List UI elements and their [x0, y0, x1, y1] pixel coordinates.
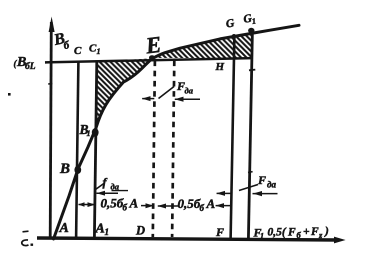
svg-text:): )	[324, 226, 329, 238]
point G1	[248, 28, 254, 34]
svg-text:1: 1	[105, 227, 110, 237]
arrow from dashed line 2 leftward	[158, 205, 179, 207]
hatched area right (between rising curve, level line, G1 vertical)	[153, 33, 253, 58]
svg-text:A: A	[59, 221, 69, 236]
svg-text:1: 1	[260, 232, 264, 241]
svg-text:A: A	[95, 222, 105, 237]
Fда top: right arrow from dashed line 2	[175, 98, 200, 100]
svg-text:А: А	[129, 196, 139, 211]
svg-text:f: f	[103, 175, 108, 189]
hatched area left (between C1 vertical, BбL level line and curve)	[96, 58, 153, 128]
svg-text:F: F	[257, 173, 266, 187]
svg-text:0,5б: 0,5б	[178, 196, 201, 211]
svg-text:да: да	[185, 86, 194, 96]
vertical below C1 (through B1)	[94, 62, 96, 238]
svg-text:1: 1	[251, 16, 257, 26]
arrow into G vertical leftward	[216, 205, 233, 207]
point B	[74, 166, 81, 174]
svg-text:E: E	[143, 32, 162, 59]
svg-text:бL: бL	[25, 61, 36, 72]
BбL level line	[45, 58, 252, 62]
svg-text:+: +	[303, 226, 310, 238]
point E junction	[149, 55, 155, 60]
Fда bottom: left arrow at G vertical	[217, 192, 233, 194]
y-axis arrowhead	[49, 17, 55, 33]
point B1	[92, 128, 99, 137]
svg-text:H: H	[215, 61, 225, 73]
dimension arrow between C and C1 verticals	[79, 204, 96, 206]
magnetization curve	[54, 25, 300, 239]
vertical below C (through B)	[76, 62, 78, 238]
Fда top: left arrow at dashed line D	[142, 98, 154, 100]
svg-text:F: F	[215, 225, 224, 239]
y-axis tick at BбL level	[45, 61, 51, 63]
label G1	[243, 12, 257, 27]
x-axis	[37, 238, 338, 240]
tick on G1 vertical lower	[248, 171, 253, 174]
svg-text:б: б	[200, 203, 205, 213]
svg-text:А: А	[206, 196, 216, 211]
svg-text:1: 1	[97, 47, 101, 56]
vertical below G1	[248, 31, 252, 239]
svg-text:б: б	[62, 39, 70, 52]
vertical below G	[231, 36, 235, 239]
point G	[232, 34, 236, 38]
f да arrow into C1 vertical	[97, 192, 119, 194]
y-axis small tick	[48, 83, 52, 85]
Fда bottom: right arrow at G1 vertical	[253, 193, 278, 195]
arrow into dashed line D	[141, 205, 154, 207]
Fда bottom label with leader	[239, 185, 258, 191]
label G	[225, 17, 236, 30]
svg-text:б: б	[123, 203, 128, 213]
svg-text:D: D	[135, 224, 145, 238]
svg-text:B: B	[59, 161, 70, 177]
x-axis arrowhead	[334, 237, 346, 244]
svg-text:F: F	[310, 226, 319, 238]
Fда top label with leader	[159, 87, 175, 99]
svg-text:G: G	[225, 17, 236, 30]
svg-text:z: z	[318, 230, 323, 240]
svg-text:да: да	[267, 180, 276, 190]
svg-text:1: 1	[87, 129, 91, 138]
svg-text:0,5(: 0,5(	[268, 227, 287, 239]
dashed line 2	[172, 61, 174, 238]
label Bб (top of y-axis)	[52, 29, 71, 54]
svg-text:C: C	[74, 45, 82, 57]
label E	[143, 32, 162, 59]
dashed line at D	[153, 61, 155, 238]
tick on G1 vertical upper	[249, 69, 255, 72]
stray marks bottom left	[23, 230, 29, 233]
y-axis	[50, 22, 51, 239]
svg-text:0,5б: 0,5б	[101, 196, 124, 211]
svg-text:F: F	[287, 227, 296, 239]
speck dot left	[8, 93, 11, 96]
